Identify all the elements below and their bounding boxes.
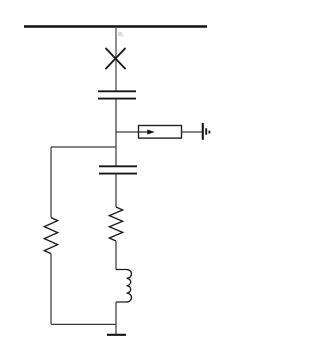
wire junction to left branch bbox=[51, 146, 116, 148]
ground (right, earth symbol) bbox=[203, 123, 210, 140]
left branch wire R1 to bottom wire bbox=[50, 254, 52, 325]
wire probe to right ground bbox=[182, 131, 203, 133]
wire C2 to R2 bbox=[115, 174, 117, 207]
faint label artifact near busbar bbox=[118, 32, 124, 37]
bottom wire (left branch return) bbox=[51, 323, 116, 325]
arrow inside probe M1 bbox=[139, 130, 155, 135]
wire busbar to breaker and down to C1 bbox=[115, 27, 117, 91]
resistor R1 bbox=[44, 218, 57, 254]
capacitor C2 bbox=[99, 166, 137, 173]
left branch wire down to R1 bbox=[50, 147, 52, 218]
capacitor C1 bbox=[98, 91, 136, 98]
wire R2 to L1 bbox=[115, 241, 117, 270]
busbar (top node) bbox=[24, 25, 207, 28]
wire C1 to C2 (through junctions) bbox=[115, 99, 117, 166]
resistor R2 bbox=[109, 207, 122, 241]
ground (bottom) bbox=[107, 334, 126, 336]
wire junction to probe box bbox=[116, 131, 139, 133]
wire L1 to bottom ground bbox=[115, 302, 117, 335]
probe box M1 (measuring device) bbox=[139, 126, 182, 139]
breaker X (switch) bbox=[106, 49, 125, 69]
inductor L1 bbox=[116, 270, 132, 302]
